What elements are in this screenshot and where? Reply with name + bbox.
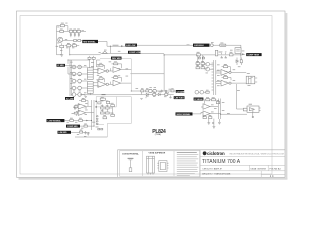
resistor R10	[72, 43, 76, 47]
inner drawing border	[20, 16, 272, 174]
resistor R3	[69, 29, 72, 33]
low power section box	[96, 97, 131, 137]
label MID SIGNAL	[82, 40, 98, 44]
svg-text:FOLHA: A4: FOLHA: A4	[270, 167, 282, 170]
relay RL1	[246, 76, 257, 84]
title block left edge	[117, 150, 119, 178]
pilot lamp symbol	[210, 44, 213, 47]
hanging stubs on bus	[140, 92, 172, 99]
mid-to-high bus wire 2	[131, 94, 173, 96]
wire LOW SIGNAL run	[64, 120, 91, 122]
wire long interconnect	[130, 45, 241, 91]
transistor Q8	[72, 86, 78, 90]
value speckles interconnect	[99, 42, 245, 97]
wire LIM MID run	[71, 132, 107, 137]
op-amp wiring mid	[80, 64, 131, 96]
svg-text:COMP HIGH: COMP HIGH	[247, 55, 259, 57]
label LIM MID	[58, 131, 72, 134]
transistor Q2	[72, 65, 78, 69]
title block divider data cell	[248, 165, 250, 171]
op-amp U3	[78, 104, 86, 109]
label DRV MID	[111, 57, 122, 60]
resistor R20	[141, 88, 144, 92]
label LIM HIGH	[193, 44, 210, 48]
driver IC block lower	[87, 82, 93, 94]
op-amp wiring low	[74, 100, 94, 130]
op-amp U4	[78, 110, 86, 115]
resistor R31	[203, 115, 206, 118]
terminal marks	[98, 128, 103, 130]
svg-text:LIM MID: LIM MID	[59, 132, 67, 134]
transistor Q1	[58, 37, 63, 42]
mid power section box	[100, 59, 131, 91]
label IC HIGH	[194, 98, 204, 101]
svg-text:LIM HIGH: LIM HIGH	[194, 45, 204, 47]
label COMP LOW	[128, 51, 141, 54]
junction dots box L	[95, 101, 97, 103]
symbol area divider 1	[142, 151, 144, 176]
mid-to-high bus wire 1	[131, 90, 176, 92]
svg-text:LIM T/AO: LIM T/AO	[175, 97, 185, 100]
package outline small	[157, 161, 168, 172]
svg-text:MID SIGNAL: MID SIGNAL	[83, 41, 96, 44]
logo/title section divider	[199, 150, 201, 178]
title block row line under circuit row	[200, 170, 285, 172]
ground GND2	[87, 132, 90, 135]
coupling component CA2	[78, 40, 81, 42]
resistor R12 vertical	[215, 50, 221, 56]
transistor Q18	[78, 93, 85, 97]
feedback resistor RF7	[74, 112, 78, 114]
wire IC MID to transistor bank	[65, 60, 90, 74]
title block page row line	[261, 174, 285, 176]
capacitor C7	[161, 90, 163, 93]
label COMP MID	[66, 125, 80, 128]
transistor Q4	[72, 72, 78, 76]
driver IC block upper	[87, 68, 93, 80]
wire LIM HIGH run	[137, 45, 241, 53]
arrow into LIM LOW	[121, 45, 124, 47]
svg-text:COMP LOW: COMP LOW	[129, 52, 141, 54]
transistor Q5	[78, 72, 88, 76]
value speckles left bank	[70, 62, 128, 89]
op-amp wiring high	[216, 67, 246, 84]
label IC LOW	[65, 97, 74, 100]
resistor R32	[209, 115, 212, 118]
wire HIGH SIGNAL run	[193, 112, 202, 114]
hanging capacitor C5	[225, 56, 227, 58]
svg-text:DRV MID: DRV MID	[112, 58, 121, 60]
resistor R27 vertical	[240, 58, 242, 66]
terminal icon in cell 1	[128, 158, 134, 171]
label LIM LOW	[125, 44, 137, 47]
resistor R34	[171, 88, 174, 92]
resistor R11 on interconnect	[196, 52, 200, 56]
svg-text:(750A): (750A)	[155, 133, 161, 136]
junction dots	[68, 46, 242, 127]
feedback resistor RF2b	[114, 75, 118, 78]
small box before COMP HIGH	[235, 48, 241, 54]
wire top network stems	[198, 55, 203, 67]
op-amp U1	[93, 68, 108, 74]
resistor R1	[60, 23, 64, 27]
capacitor C1	[70, 33, 72, 36]
feedback resistor RF4	[224, 64, 228, 68]
capacitor C2	[74, 33, 76, 36]
bias resistor pair	[88, 56, 100, 68]
sheet shadow bottom	[19, 178, 288, 180]
label speck above low box	[102, 94, 106, 95]
left supply rail mid block	[70, 60, 72, 96]
input stage top wire	[57, 26, 87, 55]
resistor R9	[67, 43, 71, 47]
diode D1	[146, 93, 148, 95]
high lower bus	[201, 99, 247, 120]
wire R8 to ground	[61, 48, 63, 55]
pin header dots	[97, 116, 98, 125]
resistor R18	[84, 124, 87, 128]
capacitor C3	[78, 33, 80, 36]
svg-text:ciclotron: ciclotron	[207, 151, 225, 156]
title block symbol area box	[120, 151, 200, 176]
diode D2	[158, 93, 160, 95]
ground GND4	[212, 119, 215, 129]
transistor Q9	[78, 86, 88, 90]
transistor Q17	[72, 93, 78, 97]
logo mark	[203, 151, 207, 155]
transistor Q15	[195, 90, 200, 94]
notes paragraph	[177, 152, 199, 176]
op-amp U2b	[113, 80, 121, 86]
op-amp U2	[93, 81, 108, 87]
label HIGH SIGNAL	[176, 112, 193, 116]
title block row line under title	[200, 164, 285, 166]
svg-text:IC HIGH: IC HIGH	[195, 99, 203, 101]
resistor R33	[206, 90, 209, 93]
resistor R2	[60, 29, 64, 33]
svg-text:LIM LOW: LIM LOW	[126, 45, 135, 47]
high input network R25	[196, 65, 200, 69]
ground GND3	[207, 119, 210, 125]
label COMP HIGH	[246, 53, 261, 56]
value speckles low opamps	[72, 107, 88, 115]
svg-text:LOW SIGNAL: LOW SIGNAL	[48, 120, 62, 123]
ground GND6	[85, 96, 88, 98]
arrow into COMP HIGH	[242, 53, 245, 55]
package outline tall	[147, 156, 155, 174]
resistor R13	[229, 52, 233, 56]
svg-text:VISTA SUPERIOR: VISTA SUPERIOR	[149, 152, 166, 155]
title block top line	[118, 149, 286, 151]
wire right column	[237, 84, 248, 109]
feedback resistor RF2	[99, 76, 103, 79]
resistor R35	[153, 94, 156, 97]
ticks above interconnect	[221, 52, 227, 54]
title block row line under logo	[200, 156, 285, 158]
transistor Q3	[78, 65, 88, 69]
op-amp U1b	[113, 67, 121, 73]
label CH AMP	[176, 90, 186, 93]
resistor R17	[79, 118, 83, 122]
high input network R23	[196, 61, 200, 65]
fuse F1	[220, 44, 226, 46]
wire input row	[65, 46, 80, 55]
small input box	[243, 108, 247, 111]
svg-text:INDUSTRIA ELETRONICA LTDA - WW: INDUSTRIA ELETRONICA LTDA - WWW.CICLOTRO…	[230, 153, 285, 156]
resistor bank low 1	[98, 101, 115, 118]
feedback resistor RF6	[74, 106, 78, 108]
resistor R16	[70, 118, 74, 122]
header bus high section	[212, 60, 216, 95]
ground GND1	[60, 54, 63, 56]
feedback resistor RF1b	[114, 62, 118, 65]
resistor RL0	[100, 97, 105, 100]
svg-text:COMP MID: COMP MID	[67, 126, 78, 128]
label IC MID	[57, 64, 66, 67]
high lower op-amp U8	[203, 111, 210, 116]
resistor R30	[216, 100, 219, 103]
high input network R24	[201, 61, 205, 65]
symbol area divider 2	[173, 151, 175, 176]
transistor Q14	[205, 67, 214, 71]
transistor pair on bus	[149, 87, 157, 92]
hanging resistor R15	[202, 56, 204, 59]
diode D3	[236, 58, 238, 66]
wire to COMP LOW	[70, 53, 128, 54]
feedback resistor RF5	[224, 75, 228, 79]
wire Q1 to MID SIGNAL	[62, 41, 83, 46]
svg-text:HIGH SIGNAL: HIGH SIGNAL	[177, 113, 191, 116]
high lower op-amp U7	[203, 104, 210, 109]
ground GND5	[218, 119, 221, 124]
svg-text:DATA: 08/09/08: DATA: 08/09/08	[251, 167, 267, 170]
resistor R19	[80, 130, 83, 134]
svg-text:COSTA FRONTAL: COSTA FRONTAL	[122, 152, 140, 155]
label LIM T/AO	[174, 96, 185, 99]
buffer arrow symbol	[102, 51, 107, 53]
capacitor C6	[84, 131, 86, 134]
outer sheet border	[17, 11, 286, 177]
arrow on low signal wire	[86, 120, 89, 122]
resistor R21	[146, 88, 149, 92]
coupling component CA1	[74, 40, 77, 42]
monitor buffer box	[247, 106, 261, 118]
transistor Q13	[205, 62, 214, 66]
title block divider folha cell	[267, 165, 269, 171]
op-amp U5	[221, 70, 231, 76]
value speckles input cluster	[57, 23, 86, 137]
resistor R22	[165, 92, 168, 96]
transistor Q16	[200, 90, 206, 94]
op-amp U6	[221, 80, 231, 86]
svg-text:CH AMP: CH AMP	[177, 90, 186, 93]
svg-text:TITANIUM 700 A: TITANIUM 700 A	[202, 159, 241, 165]
resistor R29	[212, 97, 216, 100]
label LOW SIGNAL	[47, 119, 65, 123]
sheet shadow right	[286, 13, 288, 180]
resistor R5	[77, 29, 80, 33]
svg-text:IC MID: IC MID	[57, 65, 64, 67]
svg-text:IC LOW: IC LOW	[66, 98, 74, 100]
wire COMP MID run	[80, 125, 94, 127]
wire to LIM LOW	[98, 42, 125, 54]
hanging capacitor C4	[221, 56, 223, 58]
value speckles high bank	[206, 65, 253, 114]
svg-text:1 4: 1 4	[270, 174, 274, 178]
hanging resistor R14	[198, 56, 200, 59]
title block divider page cell	[260, 171, 262, 178]
resistor R8	[56, 45, 64, 47]
transistor Q7	[78, 79, 88, 83]
value speckles low bank	[78, 101, 114, 128]
svg-text:CIRCUITO: AMPLIF.: CIRCUITO: AMPLIF.	[202, 167, 222, 170]
high input network R26	[201, 65, 205, 69]
feedback resistor RF1	[99, 63, 103, 66]
resistor RF3	[82, 98, 86, 101]
transistor Q6	[72, 79, 78, 83]
resistor R28	[206, 97, 210, 100]
value label on wire	[113, 44, 119, 47]
svg-text:ARQUIVO: TITANIUM700AB: ARQUIVO: TITANIUM700AB	[202, 172, 231, 175]
junction node A	[165, 90, 167, 92]
resistor R4	[73, 29, 76, 33]
emitter speckles	[73, 65, 86, 93]
